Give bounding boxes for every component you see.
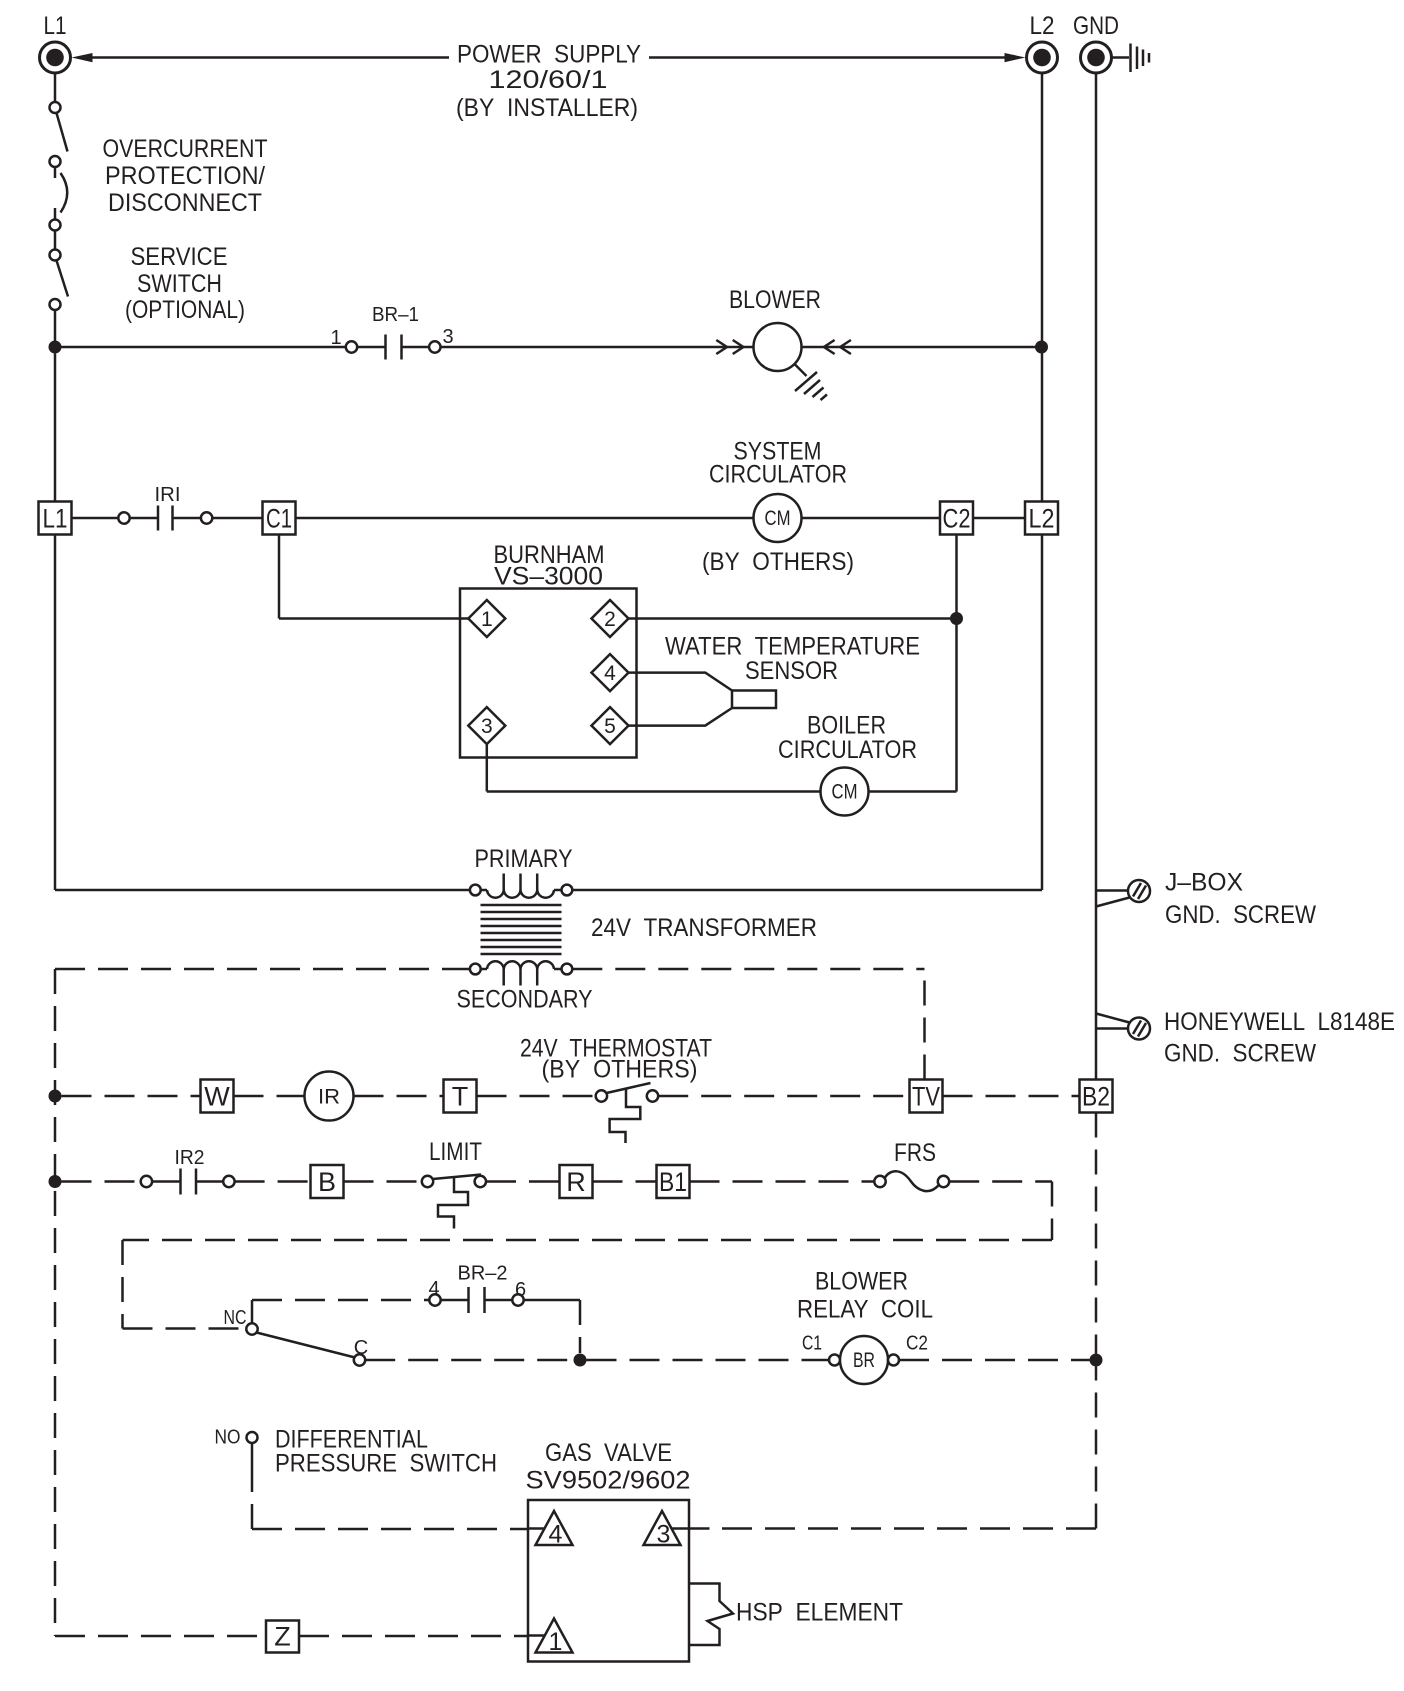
svg-text:BR: BR [853,1349,875,1372]
svg-text:IR2: IR2 [175,1147,205,1169]
svg-text:(OPTIONAL): (OPTIONAL) [125,296,245,324]
svg-text:(BY OTHERS): (BY OTHERS) [542,1056,698,1084]
svg-text:C1: C1 [802,1333,822,1355]
svg-text:TV: TV [912,1082,940,1112]
svg-text:PROTECTION/: PROTECTION/ [105,162,265,190]
svg-text:HSP ELEMENT: HSP ELEMENT [736,1599,903,1627]
svg-text:(BY INSTALLER): (BY INSTALLER) [456,94,638,122]
svg-text:LIMIT: LIMIT [429,1138,482,1166]
svg-text:C2: C2 [906,1333,928,1355]
svg-text:SWITCH: SWITCH [137,270,222,298]
svg-text:T: T [452,1082,469,1112]
svg-text:BLOWER: BLOWER [729,286,821,314]
svg-text:HONEYWELL L8148E: HONEYWELL L8148E [1164,1008,1395,1036]
svg-text:PRIMARY: PRIMARY [475,845,573,873]
svg-text:3: 3 [442,326,453,348]
svg-text:B1: B1 [659,1167,687,1197]
svg-text:FRS: FRS [894,1139,936,1167]
svg-text:GND. SCREW: GND. SCREW [1164,1040,1316,1068]
svg-text:4: 4 [428,1278,439,1300]
svg-text:NC: NC [224,1307,247,1329]
svg-text:VS–3000: VS–3000 [494,563,603,591]
svg-text:5: 5 [604,715,616,738]
svg-text:GND. SCREW: GND. SCREW [1165,901,1316,929]
svg-text:IRI: IRI [155,484,181,506]
svg-text:C1: C1 [266,504,292,534]
svg-text:GAS VALVE: GAS VALVE [545,1439,672,1467]
svg-text:SENSOR: SENSOR [745,657,838,685]
svg-text:L1: L1 [44,12,67,40]
svg-text:OVERCURRENT: OVERCURRENT [103,135,268,163]
svg-text:W: W [204,1082,230,1112]
svg-text:CM: CM [832,781,858,804]
svg-text:L2: L2 [1029,504,1055,534]
svg-text:1: 1 [549,1628,563,1656]
svg-text:B2: B2 [1082,1082,1110,1112]
svg-text:SECONDARY: SECONDARY [457,986,593,1014]
svg-text:DISCONNECT: DISCONNECT [108,189,262,217]
svg-text:3: 3 [657,1521,671,1549]
svg-text:BLOWER: BLOWER [815,1268,908,1296]
svg-text:4: 4 [549,1521,563,1549]
svg-text:120/60/1: 120/60/1 [489,66,608,94]
svg-text:CIRCULATOR: CIRCULATOR [709,461,847,489]
svg-text:SV9502/9602: SV9502/9602 [526,1467,691,1495]
svg-text:BR–2: BR–2 [458,1263,508,1285]
svg-text:RELAY COIL: RELAY COIL [797,1296,933,1324]
svg-text:4: 4 [604,662,616,685]
svg-text:CM: CM [765,507,791,530]
svg-text:B: B [318,1167,336,1197]
svg-text:C2: C2 [943,504,971,534]
svg-text:C: C [354,1337,368,1359]
svg-text:BR–1: BR–1 [372,304,419,326]
svg-text:1: 1 [481,608,493,631]
svg-text:3: 3 [481,715,493,738]
svg-text:SERVICE: SERVICE [131,243,228,271]
svg-text:L2: L2 [1030,12,1055,40]
svg-text:PRESSURE SWITCH: PRESSURE SWITCH [275,1450,497,1478]
svg-text:GND: GND [1073,12,1119,40]
svg-text:R: R [566,1167,586,1197]
svg-text:6: 6 [515,1279,526,1301]
svg-text:(BY OTHERS): (BY OTHERS) [702,548,854,576]
svg-text:L1: L1 [43,504,68,534]
svg-text:24V TRANSFORMER: 24V TRANSFORMER [591,914,817,942]
svg-text:Z: Z [274,1622,291,1652]
svg-text:1: 1 [330,327,341,349]
svg-text:J–BOX: J–BOX [1165,869,1243,897]
svg-text:IR: IR [318,1086,340,1109]
svg-text:NO: NO [215,1427,241,1449]
svg-text:POWER SUPPLY: POWER SUPPLY [457,41,641,69]
svg-text:2: 2 [604,608,616,631]
svg-text:CIRCULATOR: CIRCULATOR [778,736,917,764]
